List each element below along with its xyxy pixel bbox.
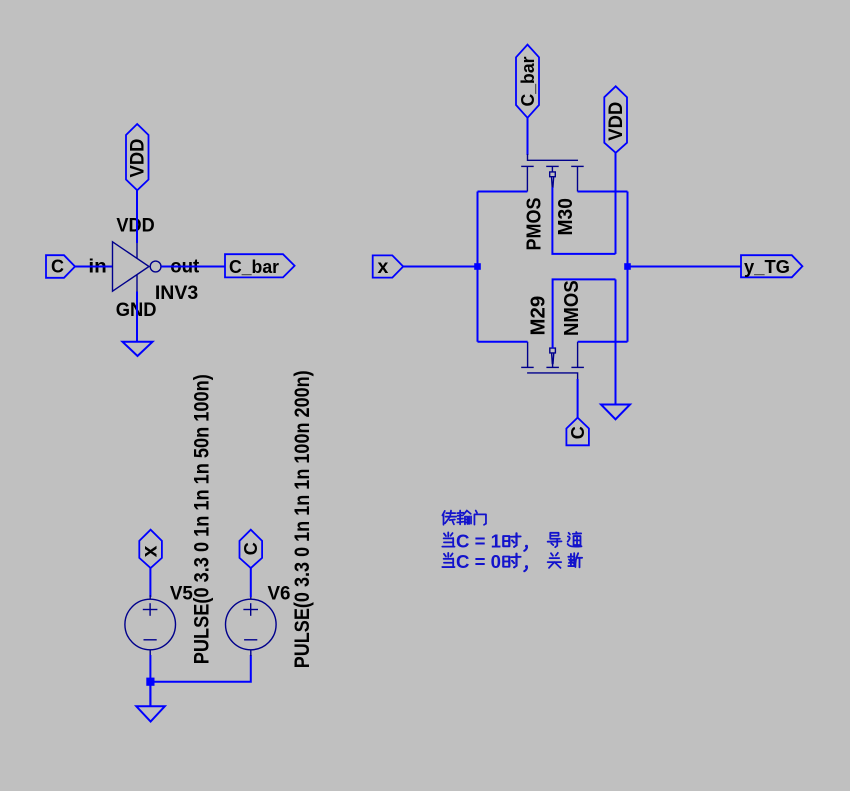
port C (input to inverter): [46, 255, 75, 278]
right rail wire: [627, 192, 629, 342]
svg-text:y_TG: y_TG: [744, 257, 790, 277]
svg-text:C: C: [241, 542, 261, 555]
port C_bar (TG pmos gate): [516, 45, 539, 118]
wire nmos source to left rail: [478, 341, 528, 343]
port VDD (inverter supply): [126, 124, 149, 190]
comment text line 1: chuan shu men: [442, 511, 486, 525]
svg-text:x: x: [378, 256, 389, 278]
svg-text:M29: M29: [527, 296, 549, 336]
wire inverter to ground: [136, 292, 138, 342]
svg-text:C = 0: C = 0: [456, 552, 501, 572]
inverter output bubble: [150, 261, 161, 272]
port C (V6 output): [240, 530, 263, 568]
wire junction to V6: [150, 655, 250, 682]
wire V5 to junction: [149, 655, 151, 706]
wire junction to ground: [149, 682, 151, 706]
port x (V5 output): [139, 530, 162, 568]
wire right junction to y_TG port: [628, 266, 742, 268]
svg-text:PMOS: PMOS: [523, 198, 545, 251]
port C (TG nmos gate): [566, 418, 589, 446]
wire x port to V5: [149, 568, 151, 597]
wire V6 to C port: [250, 568, 252, 597]
node junction sources: [146, 678, 154, 686]
wire pmos source to left rail: [478, 191, 528, 193]
voltage source V5: [125, 595, 176, 656]
svg-text:C_bar: C_bar: [229, 257, 279, 277]
svg-text:C: C: [568, 426, 588, 439]
svg-text:INV3: INV3: [155, 283, 198, 304]
port VDD (TG bulk supply): [604, 86, 627, 153]
wire nmos drain to right rail: [578, 341, 628, 343]
transistor M29 nmos symbol: [521, 342, 584, 379]
wire C port to inverter input: [75, 266, 112, 268]
svg-text:NMOS: NMOS: [561, 280, 583, 336]
voltage source V6: [226, 595, 277, 656]
ground symbol (TG): [601, 405, 630, 420]
wire pmos bulk to VDD rail: [552, 187, 615, 254]
svg-text:x: x: [139, 545, 162, 557]
svg-text:V6: V6: [268, 584, 291, 605]
left rail wire: [477, 192, 479, 342]
wire VDD port down to pmos bulk: [615, 153, 617, 254]
inverter GND pin stub: [136, 275, 138, 292]
node junction left: [474, 263, 481, 270]
wire C_bar port to pmos gate: [527, 118, 529, 155]
comment text line 2: dang C = 1 shi, dao tong: [442, 532, 581, 552]
inverter INV3 triangle: [113, 242, 162, 292]
wire x port to left junction: [403, 266, 477, 268]
svg-text:PULSE(0 3.3 0 1n 1n 1n 100n 20: PULSE(0 3.3 0 1n 1n 1n 100n 200n): [291, 370, 314, 668]
wire VDD port to inverter: [136, 190, 138, 243]
port C_bar (inverter output): [225, 254, 295, 277]
transistor M30 pmos symbol: [521, 154, 584, 192]
gnd rail wire: [615, 279, 617, 404]
wire nmos bulk to gnd rail: [553, 279, 616, 348]
inverter VDD pin stub: [136, 242, 138, 258]
wire pmos drain to right rail: [578, 191, 628, 193]
port y_TG (TG output): [741, 255, 802, 277]
svg-text:PULSE(0 3.3 0 1n 1n 1n 50n 100: PULSE(0 3.3 0 1n 1n 1n 50n 100n): [191, 374, 214, 664]
node junction right: [624, 263, 631, 270]
svg-text:VDD: VDD: [606, 102, 627, 141]
comment text line 3: dang C = 0 shi, guan duan: [442, 552, 582, 572]
svg-text:M30: M30: [555, 198, 577, 236]
svg-text:C = 1: C = 1: [456, 532, 501, 552]
svg-text:VDD: VDD: [127, 139, 148, 178]
ground symbol (sources): [136, 706, 165, 721]
svg-text:C: C: [51, 257, 64, 277]
wire nmos gate to C port: [577, 379, 579, 418]
port x (TG input): [373, 255, 404, 277]
svg-text:VDD: VDD: [116, 216, 154, 237]
svg-text:C_bar: C_bar: [518, 57, 538, 107]
wire inverter output to C_bar port: [161, 266, 225, 268]
ground symbol (inverter): [123, 342, 153, 356]
